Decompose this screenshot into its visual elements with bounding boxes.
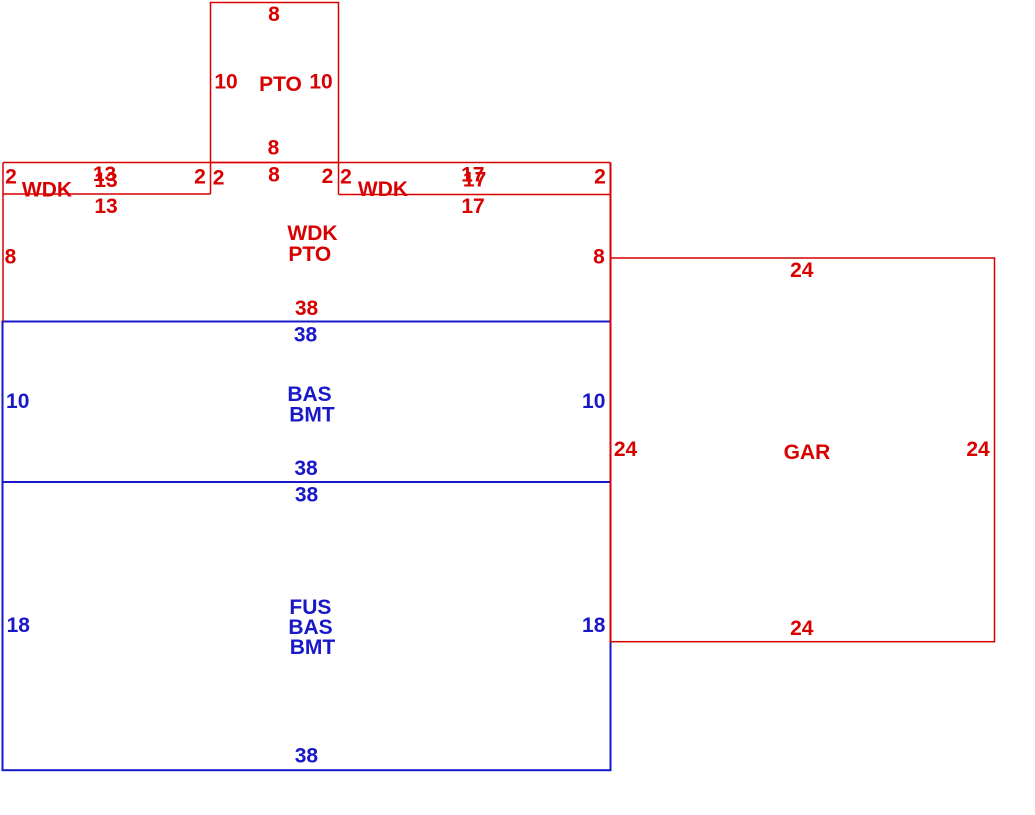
- svg-text:24: 24: [790, 617, 814, 640]
- svg-text:2: 2: [340, 166, 352, 189]
- svg-text:8: 8: [5, 246, 17, 269]
- wall WDK PTO top edge: [3, 162, 611, 164]
- svg-text:38: 38: [295, 745, 319, 768]
- svg-text:GAR: GAR: [784, 441, 831, 464]
- svg-text:10: 10: [582, 390, 605, 413]
- room GAR outline (red rect): [611, 258, 995, 642]
- svg-text:8: 8: [268, 137, 280, 160]
- wall WDK PTO left edge: [2, 163, 4, 322]
- svg-text:17: 17: [461, 195, 484, 218]
- svg-text:10: 10: [214, 71, 237, 94]
- wall right WDK bottom edge: [339, 194, 611, 196]
- svg-text:13: 13: [94, 195, 117, 218]
- svg-text:38: 38: [294, 323, 318, 346]
- svg-text:18: 18: [582, 614, 606, 637]
- area BAS BMT outline (blue rect): [3, 322, 611, 483]
- svg-text:BMT: BMT: [289, 403, 335, 426]
- area FUS BAS BMT outline (blue rect): [3, 482, 611, 770]
- svg-text:13: 13: [94, 169, 117, 192]
- svg-text:10: 10: [309, 71, 332, 94]
- svg-text:PTO: PTO: [259, 73, 302, 96]
- svg-text:WDK: WDK: [287, 222, 337, 245]
- svg-text:10: 10: [6, 390, 29, 413]
- svg-text:8: 8: [593, 246, 605, 269]
- svg-text:2: 2: [322, 165, 334, 188]
- svg-text:8: 8: [268, 164, 280, 187]
- svg-text:38: 38: [295, 484, 319, 507]
- wall right WDK left edge: [338, 163, 340, 195]
- svg-text:WDK: WDK: [22, 179, 72, 202]
- svg-text:18: 18: [7, 614, 31, 637]
- wall left WDK bottom edge: [3, 193, 211, 195]
- svg-text:8: 8: [268, 3, 280, 26]
- svg-text:38: 38: [295, 297, 319, 320]
- svg-text:24: 24: [614, 438, 638, 461]
- wall WDK PTO right edge: [610, 163, 612, 642]
- svg-text:2: 2: [213, 166, 225, 189]
- svg-text:BMT: BMT: [290, 636, 336, 659]
- svg-text:17: 17: [463, 169, 486, 192]
- svg-text:2: 2: [194, 166, 206, 189]
- svg-text:24: 24: [966, 438, 990, 461]
- svg-text:PTO: PTO: [288, 243, 331, 266]
- svg-text:2: 2: [594, 166, 606, 189]
- wall left WDK right edge: [210, 163, 212, 195]
- svg-text:2: 2: [5, 166, 17, 189]
- svg-text:WDK: WDK: [358, 178, 408, 201]
- room PTO outline (red rect): [211, 3, 339, 163]
- svg-text:38: 38: [294, 457, 318, 480]
- svg-text:24: 24: [790, 259, 814, 282]
